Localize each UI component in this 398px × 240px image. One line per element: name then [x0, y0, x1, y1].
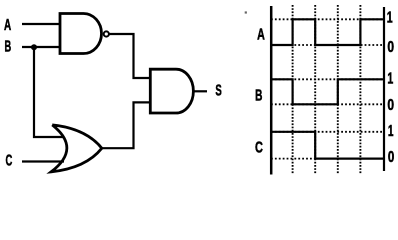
- svg-text:S: S: [215, 83, 221, 100]
- svg-text:A: A: [257, 26, 265, 43]
- svg-text:B: B: [255, 87, 262, 104]
- svg-text:C: C: [6, 152, 13, 169]
- svg-text:1: 1: [387, 71, 393, 88]
- svg-text:1: 1: [388, 123, 394, 140]
- svg-text:C: C: [255, 140, 263, 157]
- svg-text:0: 0: [387, 39, 394, 56]
- svg-text:1: 1: [387, 10, 393, 27]
- svg-text:0: 0: [388, 149, 394, 166]
- svg-text:B: B: [5, 39, 12, 56]
- svg-text:A: A: [4, 17, 11, 34]
- svg-text:0: 0: [387, 97, 394, 114]
